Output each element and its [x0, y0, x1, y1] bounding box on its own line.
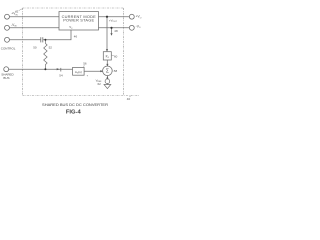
svg-text:POWER STAGE: POWER STAGE	[63, 18, 94, 23]
svg-text:62: 62	[98, 82, 102, 86]
svg-text:56: 56	[83, 61, 87, 65]
svg-text:46: 46	[74, 34, 78, 38]
svg-text:FIG-4: FIG-4	[66, 110, 82, 116]
svg-text:Σ: Σ	[106, 69, 109, 75]
svg-text:CONTROL: CONTROL	[1, 46, 16, 50]
svg-text:52: 52	[49, 46, 53, 50]
svg-text:SHARED BUS DC DC CONVERTER: SHARED BUS DC DC CONVERTER	[42, 102, 108, 107]
svg-text:50: 50	[33, 46, 37, 50]
svg-text:42: 42	[15, 9, 19, 13]
svg-text:BUS: BUS	[3, 76, 9, 80]
svg-text:60: 60	[114, 54, 118, 58]
svg-text:AV(s): AV(s)	[75, 70, 82, 75]
svg-text:48: 48	[114, 29, 118, 33]
svg-text:40: 40	[127, 97, 131, 101]
svg-text:58: 58	[114, 69, 118, 73]
svg-text:54: 54	[59, 73, 63, 77]
